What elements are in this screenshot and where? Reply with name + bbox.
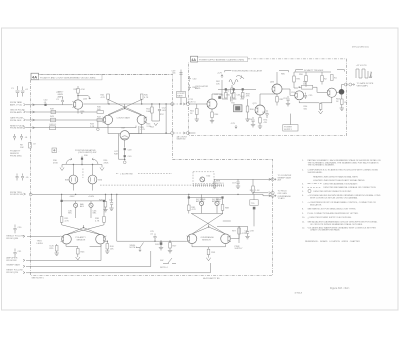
svg-text:SW: SW xyxy=(160,260,163,262)
coupling cap C140 dark on wire 1 xyxy=(44,100,49,106)
input arrow polarity xyxy=(23,235,25,237)
wire Q173 collector up xyxy=(260,94,277,105)
ground below R327 xyxy=(168,251,172,253)
overrange cross wires xyxy=(191,213,231,234)
svg-text:SOURCE SW: SOURCE SW xyxy=(10,194,23,196)
assembly boundary A dash-dot outline (polarity and count gate board) xyxy=(31,74,273,275)
assembly B label box 4A xyxy=(191,56,198,62)
left dark contact xyxy=(215,94,221,99)
schmitt trigger bracket label xyxy=(296,70,345,72)
resistor R238 right xyxy=(95,202,105,225)
svg-text:POWER: POWER xyxy=(284,126,292,128)
wire input 4 xyxy=(26,126,136,128)
transistor Q244 polarity right xyxy=(96,234,107,244)
transistor Q334 overrange left xyxy=(187,234,197,244)
svg-text:4A: 4A xyxy=(32,75,37,80)
svg-text:4A: 4A xyxy=(191,58,196,62)
capacitor C106 row xyxy=(20,134,28,140)
resistor R158 between buses xyxy=(250,179,260,194)
lamp lower stubs xyxy=(73,184,92,191)
svg-text:PLUG CONNECTIONS ARE IDENTI: PLUG CONNECTIONS ARE IDENTIFIED BY LETTE… xyxy=(308,212,359,215)
wire power supply up xyxy=(289,114,291,125)
dashed link between lamps xyxy=(82,169,84,179)
waveform arrow xyxy=(236,75,242,77)
series resistor R139 on wire 2 xyxy=(50,108,56,113)
ground below C197 xyxy=(286,104,290,106)
ground below CR326 xyxy=(159,248,163,250)
capacitor C95 below loop xyxy=(304,93,313,99)
svg-text:47K: 47K xyxy=(246,96,250,98)
capacitor C105 row xyxy=(13,134,16,140)
hook arrow right of riser xyxy=(77,95,91,99)
schmitt input wire xyxy=(282,89,295,95)
resistor R145 cross top right xyxy=(140,94,148,99)
svg-text:ADJ C85: ADJ C85 xyxy=(196,200,205,203)
wire input 3 xyxy=(26,119,103,121)
resistor R26 on bus xyxy=(104,194,107,209)
wire lamp collector to boundary crossing xyxy=(129,133,170,135)
transistor Q193 schmitt 1 xyxy=(295,91,304,100)
wire output dot to connector xyxy=(342,85,345,90)
input arrow w2 xyxy=(23,265,25,267)
hook arrow left xyxy=(66,158,72,164)
rail contact c xyxy=(242,88,244,90)
ground arrow polarity emitter xyxy=(76,257,80,260)
diode CR148 below lamp xyxy=(114,150,132,159)
svg-text:100K: 100K xyxy=(146,111,151,113)
dark contact right xyxy=(103,200,105,202)
svg-text:SEE PARTS LIST FOR SEMICON: SEE PARTS LIST FOR SEMICONDUCTOR TYPES. xyxy=(308,208,357,211)
svg-text:FROM (SW): FROM (SW) xyxy=(10,155,22,157)
junction dot a xyxy=(108,103,109,104)
svg-text:GATE BD: GATE BD xyxy=(177,138,186,141)
top rail pos-neg xyxy=(62,164,102,166)
dark contact left xyxy=(61,200,63,202)
svg-text:FROM Q214: FROM Q214 xyxy=(6,272,19,274)
junction dots on trigger bus xyxy=(61,194,62,195)
svg-text:4.7K: 4.7K xyxy=(192,209,197,211)
ground arrow left end xyxy=(60,165,64,171)
svg-text:FROM GEN: FROM GEN xyxy=(10,120,22,122)
stub cap a xyxy=(188,76,197,82)
svg-text:COUNT GATE: COUNT GATE xyxy=(117,117,131,120)
svg-text:10K: 10K xyxy=(20,147,24,149)
wire input 1 xyxy=(26,104,72,106)
boundary chevron wire 2 xyxy=(33,111,35,113)
svg-text:LEVEL: LEVEL xyxy=(37,243,44,245)
capacitor C133 xyxy=(56,97,64,105)
svg-text:8.2K: 8.2K xyxy=(50,246,55,248)
ground circle left of count gate xyxy=(97,121,99,127)
svg-text:SENSOR: SENSOR xyxy=(77,239,86,241)
panel symbol box xyxy=(52,148,61,153)
Q203 emitter join xyxy=(321,97,332,103)
branch wire 192.8 xyxy=(253,193,269,195)
cross coupling wires count gate xyxy=(108,100,142,116)
rail contact b xyxy=(233,88,235,90)
resistor R140 input left xyxy=(97,109,103,114)
transistor Q173 oscillator xyxy=(255,105,265,115)
input arrow 4 xyxy=(24,126,26,128)
ground below R151 R152 xyxy=(152,115,160,126)
stub cap b xyxy=(188,85,197,91)
svg-text:ADJ C86: ADJ C86 xyxy=(212,200,221,203)
assembly A title box xyxy=(39,75,103,80)
emitter join wires to lamp xyxy=(108,124,142,133)
output arrow xyxy=(352,83,355,85)
svg-text:4.7K: 4.7K xyxy=(65,220,70,222)
boundary crossing connectors output xyxy=(344,83,352,86)
rail contact a xyxy=(225,88,227,90)
svg-text:4.7K: 4.7K xyxy=(101,97,106,99)
wire Q203 to output dot xyxy=(336,92,338,94)
svg-text:C44 0.1: C44 0.1 xyxy=(49,124,57,126)
ground below R26 xyxy=(103,210,107,212)
riser wire between boundaries xyxy=(180,70,182,105)
junction dot c xyxy=(151,103,152,104)
capacitor C26 on bus xyxy=(110,194,113,207)
svg-text:NOTE 4: NOTE 4 xyxy=(160,267,168,269)
emitter chain overrange xyxy=(192,244,226,249)
lower dashed linkage xyxy=(100,184,222,186)
svg-text:(OSCILLATOR) SW: (OSCILLATOR) SW xyxy=(78,151,96,154)
assembly A label box 4A xyxy=(31,73,39,80)
wires coupling loop xyxy=(299,87,327,92)
neon lamp B135 xyxy=(65,165,78,184)
neon lamp B136 xyxy=(88,165,103,184)
svg-text:SUPPLY: SUPPLY xyxy=(235,248,244,250)
junction dots rail xyxy=(73,164,74,165)
boundary crossing connectors at y 104 xyxy=(171,99,196,105)
resistor R141 cross top left xyxy=(101,94,110,99)
resistor R172 sync xyxy=(226,85,234,97)
long wire 3 xyxy=(26,263,210,273)
input arrow w1 xyxy=(23,259,25,261)
lamp B167 count indicator xyxy=(120,128,129,141)
capacitor C159 on riser xyxy=(172,71,183,75)
svg-text:△ DENOTES POWER SUPPLY DEC: △ DENOTES POWER SUPPLY DECOUPLING. xyxy=(308,216,353,219)
trimmer C235 xyxy=(68,201,78,218)
hanging resistor Rb xyxy=(232,90,241,98)
svg-text:10K: 10K xyxy=(303,84,307,86)
capacitor C182 xyxy=(262,110,269,118)
svg-text:+12V: +12V xyxy=(217,73,223,75)
svg-text:FROM RESET: FROM RESET xyxy=(10,128,24,130)
resistor R135 above and gate xyxy=(74,86,86,100)
capacitor C231 lower xyxy=(13,249,22,258)
resistor R347 right overrange xyxy=(232,228,249,235)
transistor Q153 count gate right xyxy=(137,115,147,124)
wire and gate output xyxy=(83,103,172,105)
svg-text:FROM Q334: FROM Q334 xyxy=(6,238,19,240)
svg-text:1.5K: 1.5K xyxy=(255,190,260,192)
resistor R205 out xyxy=(341,94,349,109)
ground arrow below schmitt emitters xyxy=(319,111,323,114)
bypass bracket wire left of lamp chain xyxy=(119,134,125,160)
resistor R229 below left xyxy=(50,244,59,253)
svg-text:± SLOPE SW: ± SLOPE SW xyxy=(120,174,133,176)
capacitor C29 left edge xyxy=(21,174,29,181)
wire feed box down xyxy=(253,194,255,226)
boundary chevron and connector wire 179 xyxy=(269,178,276,181)
slope switch dashed line xyxy=(116,174,172,176)
wire top of overrange trimmer xyxy=(189,194,223,197)
emitter resistor R164 xyxy=(211,109,219,121)
svg-text:4.7K: 4.7K xyxy=(95,220,100,222)
svg-text:SUPPLY: SUPPLY xyxy=(284,129,293,131)
svg-text:2.2K: 2.2K xyxy=(147,126,152,128)
svg-text:OF CIRCUITS WITHIN NUMBERED: OF CIRCUITS WITHIN NUMBERED STAGE OUTLIN… xyxy=(310,223,363,226)
svg-text:DENOTES MECHANICAL LINKAGE: DENOTES MECHANICAL LINKAGE OR CONNECTION… xyxy=(324,186,377,189)
svg-text:470K: 470K xyxy=(53,162,58,164)
long wire trigger bus xyxy=(32,194,271,195)
svg-text:4.7K: 4.7K xyxy=(144,97,149,99)
svg-text:10K: 10K xyxy=(216,83,220,85)
junction and circle ground below lamp chain xyxy=(123,159,126,164)
relay box K150 dashed xyxy=(193,172,224,187)
output waveform drawing xyxy=(356,69,372,78)
svg-text:HEAVIER LINES DENOTE MAIN: HEAVIER LINES DENOTE MAIN SIGNAL PATH. xyxy=(313,175,358,178)
svg-text:AMPL V7 (4): AMPL V7 (4) xyxy=(10,104,22,107)
resistor R166 xyxy=(246,99,254,119)
capacitor C348 xyxy=(246,226,255,236)
note 4 switch symbol xyxy=(160,258,176,269)
junction dots bus feeds xyxy=(105,194,106,195)
long wire 1 xyxy=(26,245,101,261)
emitter chain polarity xyxy=(66,244,101,248)
resistor R108 left column xyxy=(20,143,31,149)
svg-text:SEE NOTE 5: SEE NOTE 5 xyxy=(32,277,45,279)
capacitor C156 right of relay xyxy=(213,179,216,185)
svg-text:SYNCHRONIZED OSCILLATOR: SYNCHRONIZED OSCILLATOR xyxy=(232,69,263,72)
ground below Q173 xyxy=(258,126,262,128)
svg-text:+100V: +100V xyxy=(88,196,95,198)
svg-text:CKT 4: CKT 4 xyxy=(190,101,197,103)
boundary chevron and connector wire 195.8 xyxy=(269,194,276,197)
svg-text:Figure 8-8. <4A>: Figure 8-8. <4A> xyxy=(330,286,350,290)
svg-text:4.7K: 4.7K xyxy=(242,233,247,235)
transistor Q143 count gate left xyxy=(103,115,113,124)
svg-text:AMPL: AMPL xyxy=(58,95,65,98)
svg-text:470K: 470K xyxy=(104,162,109,164)
ground below R161 xyxy=(195,119,199,121)
svg-text:RATE: RATE xyxy=(177,95,183,98)
ground below R229 xyxy=(55,253,59,255)
wire from R junction down to relay area xyxy=(165,104,167,133)
resistor R327 xyxy=(169,241,177,250)
capacitor C325 feed xyxy=(150,231,157,241)
ground below C26 xyxy=(109,208,113,210)
resistor R201 above Q203 xyxy=(331,75,338,81)
ground below R205 xyxy=(340,108,344,110)
svg-text:DENOTES INTERCONNECTION POIN: DENOTES INTERCONNECTION POINT. xyxy=(314,191,353,193)
resistor R142 input left lower xyxy=(97,117,103,122)
svg-text:SENSOR: SENSOR xyxy=(202,239,211,241)
svg-text:10.: 10. xyxy=(302,217,305,219)
resistor R202 schmitt xyxy=(321,72,328,85)
svg-text:+12V: +12V xyxy=(140,129,146,131)
svg-text:@765-8: @765-8 xyxy=(295,293,303,295)
svg-text:INDICATOR.: INDICATOR. xyxy=(310,203,322,206)
transistor Q183 sync osc output xyxy=(272,84,282,94)
crystal Y160 dark block xyxy=(231,103,242,112)
capacitor C174 xyxy=(248,117,255,124)
terminal box TP158 xyxy=(177,92,186,98)
wire relay to cap xyxy=(214,178,271,180)
overrange trimmer C336 xyxy=(212,198,222,214)
wire right of overrange xyxy=(231,226,239,238)
stub wire right of terminal box xyxy=(186,98,188,105)
wire input to osc ampl xyxy=(189,103,207,105)
ground below C174 xyxy=(251,125,255,127)
junction dot riser xyxy=(180,103,181,104)
junction dots on bus 241 xyxy=(154,241,155,242)
capacitor C102 xyxy=(21,87,29,97)
boundary chevron wire 1 xyxy=(33,104,35,106)
resistor R152 xyxy=(158,104,167,115)
capacitor C101 top left xyxy=(11,86,20,97)
transistor Q134 and gate xyxy=(72,100,82,109)
resistor R338 right overrange xyxy=(221,198,229,214)
switch S30 note xyxy=(130,243,144,252)
junction dot d xyxy=(165,103,166,104)
wire input 2 xyxy=(26,111,97,113)
resistor R181 xyxy=(276,94,284,106)
input arrow 1 xyxy=(24,104,26,106)
input arrow w3 xyxy=(23,272,25,274)
ground below R166 xyxy=(245,119,249,121)
svg-text:POWER SUPPLY ASSEMBLY (DASHED: POWER SUPPLY ASSEMBLY (DASHED LINES) xyxy=(199,58,244,61)
sync oscillator bracket label xyxy=(225,69,289,72)
transistor Q344 overrange right xyxy=(221,234,231,244)
svg-text:SWEEP GATE: SWEEP GATE xyxy=(6,263,20,266)
polarity sensor cross wires xyxy=(62,225,104,235)
emitter components Q173 xyxy=(259,115,262,126)
ground arrow right end xyxy=(100,165,104,171)
resistor R246 right of polarity xyxy=(106,241,114,251)
svg-text:-12V: -12V xyxy=(231,123,236,125)
rail above right overrange xyxy=(217,226,248,228)
boundary chevron wire 4 xyxy=(33,127,35,129)
hanging resistor Ra xyxy=(220,90,228,98)
top rail +12v inside box B xyxy=(212,80,222,99)
overrange trimmer C335 xyxy=(196,194,206,213)
input arrow trigger xyxy=(24,193,26,195)
junction dot b xyxy=(141,103,142,104)
svg-text:11.: 11. xyxy=(302,222,305,224)
svg-text:SHOWN HERE.: SHOWN HERE. xyxy=(308,172,323,174)
svg-text:DENOTES ASSEMBLY BOUNDARY.: DENOTES ASSEMBLY BOUNDARY. xyxy=(324,182,359,185)
resistor R243 emitter polarity xyxy=(77,249,86,258)
resistor R196 schmitt xyxy=(299,72,307,87)
resistor R191 above Q193 xyxy=(293,72,301,88)
series resistor R143 on wire 3 xyxy=(50,116,56,122)
value label +12v rail b xyxy=(217,73,223,78)
svg-text:12.: 12. xyxy=(302,227,305,229)
svg-text:15K: 15K xyxy=(110,248,114,250)
boundary connector trigger xyxy=(29,193,32,196)
assembly boundary B dash-dot rectangle (power supply board) xyxy=(188,59,346,135)
svg-text:+12 VOLTS: +12 VOLTS xyxy=(356,65,367,67)
resistor R151 xyxy=(146,104,153,121)
center riser with dark contact xyxy=(81,156,83,165)
svg-text:VERT AMPL: VERT AMPL xyxy=(357,85,369,88)
resistor R331 left overrange xyxy=(188,199,197,214)
svg-text:REFERENCE: BOARD LOCATION: REFERENCE: BOARD LOCATION GRIDS CHAPTER xyxy=(305,240,360,243)
svg-text:THE SCHEMATIC NUMBER.: THE SCHEMATIC NUMBER. xyxy=(308,164,335,167)
value label -12v xyxy=(231,123,238,128)
ground below C157 xyxy=(236,186,240,188)
svg-text:4975-02 (SN 101): 4975-02 (SN 101) xyxy=(352,47,369,49)
hanging resistor Rc xyxy=(241,90,250,98)
svg-text:2.2K: 2.2K xyxy=(90,126,95,128)
dark dot below feed box xyxy=(253,207,256,210)
input arrow 2 xyxy=(24,111,26,113)
svg-text:CHART ON WAVEFORM PAGE.: CHART ON WAVEFORM PAGE. xyxy=(310,229,341,232)
diode CR326 dark xyxy=(155,241,162,247)
capacitor C165 xyxy=(222,95,236,102)
svg-text:TO A19: TO A19 xyxy=(278,197,286,200)
overrange top feed box xyxy=(250,200,258,206)
svg-text:OFF GEN: OFF GEN xyxy=(278,193,288,195)
svg-text:-100V: -100V xyxy=(69,196,75,198)
oscillator feedback rail xyxy=(218,88,256,90)
junction at crossing wire xyxy=(165,132,166,133)
power supply box label xyxy=(283,125,298,132)
assembly B title box xyxy=(198,57,248,62)
rail mid box B xyxy=(277,72,306,84)
resistor R343 emitter overrange xyxy=(207,249,216,258)
capacitor C197 xyxy=(283,96,290,103)
wire lamp right to +12v riser xyxy=(129,126,145,134)
emitter resistor R194 xyxy=(299,101,322,111)
capacitor C157 on wire xyxy=(232,179,240,185)
transistor Q203 schmitt 2 xyxy=(327,88,336,97)
svg-text:ADJ: ADJ xyxy=(80,205,84,208)
ground below C348 xyxy=(245,237,249,239)
boundary crossing connectors at y 133 xyxy=(171,132,196,135)
ground below C156 xyxy=(212,186,216,188)
series resistor R147 on wire 4 xyxy=(49,124,57,130)
boundary chevron wire 3 xyxy=(33,119,35,121)
coupling resistor R95 schmitt xyxy=(302,81,313,89)
svg-text:SCHMITT TRIGGER: SCHMITT TRIGGER xyxy=(304,70,324,72)
svg-text:FROM AMPL: FROM AMPL xyxy=(10,111,23,114)
input arrow 3 xyxy=(24,119,26,121)
resistor R231 left xyxy=(60,202,69,225)
trimmer C236 xyxy=(89,201,97,218)
emitter stub below and gate xyxy=(78,109,85,115)
capacitor C147 below lamp xyxy=(114,140,132,153)
svg-text:4A POLARITY BD: 4A POLARITY BD xyxy=(203,277,220,280)
waveform sketch inside oscillator xyxy=(229,77,244,85)
boundary chevron and connector wire 192.8 xyxy=(269,191,274,194)
junction dot bus xyxy=(107,241,108,242)
svg-text:4.5K: 4.5K xyxy=(81,89,86,91)
svg-text:NOTE 3: NOTE 3 xyxy=(216,183,224,185)
svg-text:LIGHTER LINES DENOTE AUXILI: LIGHTER LINES DENOTE AUXILIARY SIGNAL PA… xyxy=(313,179,365,182)
transistor Q163 osc ampl xyxy=(207,99,217,109)
hook arrow right xyxy=(92,158,98,164)
transistor Q234 polarity left xyxy=(61,234,72,244)
rail top schmitt xyxy=(294,71,331,73)
capacitor C230 upper xyxy=(13,225,22,234)
svg-text:FROM SW: FROM SW xyxy=(6,260,16,262)
wire bus down left xyxy=(117,194,187,241)
junction dot schmitt xyxy=(299,87,300,88)
long wire 2 xyxy=(26,251,151,267)
input wire polarity xyxy=(27,235,60,237)
